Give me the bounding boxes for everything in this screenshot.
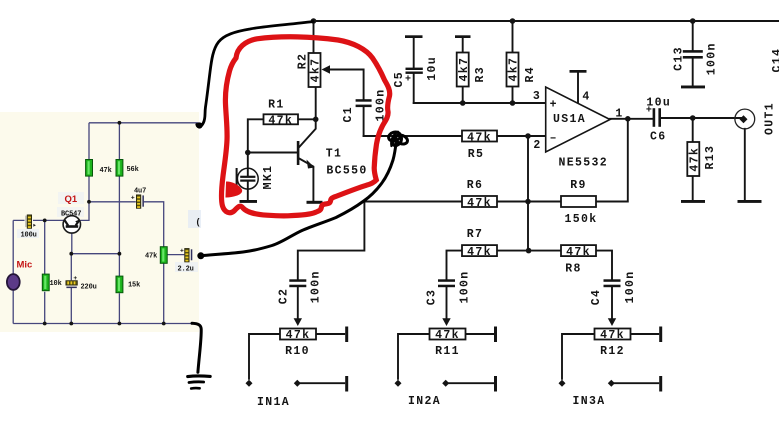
svg-text:47k: 47k [268,115,293,128]
svg-text:47k: 47k [689,147,702,172]
svg-text:R9: R9 [570,179,587,192]
svg-text:OUT1: OUT1 [764,102,777,135]
svg-text:R10: R10 [285,345,310,358]
svg-text:150k: 150k [564,213,597,226]
svg-text:10k: 10k [50,280,62,288]
svg-text:+: + [180,248,184,255]
svg-text:47k: 47k [467,131,492,144]
svg-text:Q1: Q1 [65,194,78,205]
svg-text:R12: R12 [600,345,625,358]
svg-text:MK1: MK1 [262,165,275,190]
svg-text:100u: 100u [21,232,37,240]
svg-text:(: ( [197,217,200,227]
svg-text:3: 3 [533,90,541,103]
svg-text:2.2u: 2.2u [178,266,194,274]
svg-text:47k: 47k [286,329,311,342]
svg-text:R3: R3 [474,66,487,83]
svg-text:R8: R8 [565,263,582,276]
svg-text:100n: 100n [309,270,322,303]
svg-text:+: + [646,106,653,117]
svg-text:IN2A: IN2A [408,395,441,408]
svg-text:R13: R13 [704,145,717,170]
svg-text:R1: R1 [268,99,285,112]
svg-text:C13: C13 [673,46,686,71]
svg-text:4: 4 [582,91,590,104]
svg-text:100n: 100n [459,270,472,303]
svg-text:C2: C2 [278,288,291,305]
svg-text:C4: C4 [590,289,603,306]
svg-text:4k7: 4k7 [458,57,471,82]
svg-text:100n: 100n [624,270,637,303]
svg-text:220u: 220u [81,283,97,291]
svg-text:T1: T1 [326,148,343,161]
svg-text:NE5532: NE5532 [559,157,609,170]
svg-text:47k: 47k [145,253,157,261]
svg-text:R7: R7 [467,228,484,241]
svg-text:2: 2 [533,139,541,152]
svg-text:R5: R5 [468,148,485,161]
svg-text:+: + [73,275,77,282]
svg-text:4k7: 4k7 [310,58,323,83]
svg-text:C3: C3 [426,289,439,306]
svg-text:1: 1 [615,108,623,121]
svg-text:R2: R2 [297,53,310,70]
svg-text:15k: 15k [128,282,140,290]
svg-text:C1: C1 [342,106,355,123]
svg-text:100n: 100n [705,42,718,75]
svg-text:+: + [405,75,412,86]
svg-text:Mic: Mic [17,260,33,271]
svg-text:IN3A: IN3A [572,395,605,408]
svg-text:R4: R4 [524,66,537,83]
svg-text:4k7: 4k7 [508,57,521,82]
svg-text:C5: C5 [393,71,406,88]
svg-text:47k: 47k [566,246,591,259]
svg-text:47k: 47k [467,197,492,210]
svg-text:C6: C6 [650,131,667,144]
svg-text:IN1A: IN1A [257,396,290,409]
svg-text:47k: 47k [467,246,492,259]
svg-text:–: – [550,132,558,145]
svg-text:47k: 47k [100,167,112,175]
svg-text:56k: 56k [127,166,139,174]
svg-text:R6: R6 [467,179,484,192]
svg-text:10u: 10u [426,56,439,81]
svg-text:R11: R11 [435,345,460,358]
svg-text:BC547: BC547 [61,210,81,218]
svg-text:+: + [550,99,558,112]
svg-text:4u7: 4u7 [134,188,146,196]
svg-text:47k: 47k [600,329,625,342]
svg-text:US1A: US1A [553,113,586,126]
svg-text:BC550: BC550 [326,165,367,178]
svg-text:C14: C14 [771,48,779,73]
svg-text:47k: 47k [435,329,460,342]
